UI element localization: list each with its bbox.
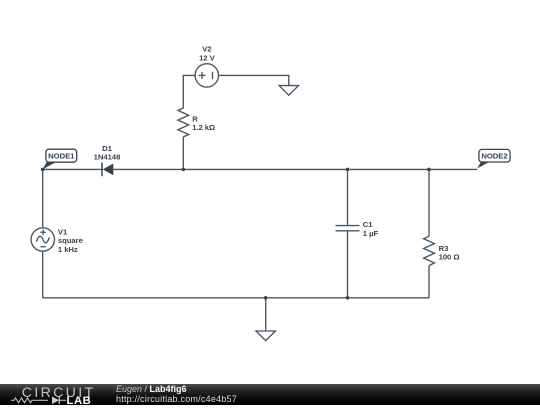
wire: main bus right segment (D1 to NODE2) xyxy=(113,168,477,170)
footer title text xyxy=(116,385,237,404)
wire: R bottom to main bus xyxy=(182,137,184,170)
ground (bottom, main) xyxy=(256,331,275,341)
svg-text:V2: V2 xyxy=(202,45,211,54)
svg-text:LAB: LAB xyxy=(67,395,92,405)
svg-text:D1: D1 xyxy=(102,144,113,153)
svg-text:NODE1: NODE1 xyxy=(48,152,75,161)
wire: V2 left lead to R top xyxy=(183,75,195,108)
wire: main bus left segment (NODE1 to D1) xyxy=(43,168,102,170)
svg-text:12 V: 12 V xyxy=(199,53,216,62)
ground (top, at V2 negative) xyxy=(279,86,298,96)
svg-text:1 kHz: 1 kHz xyxy=(58,245,78,254)
svg-text:R: R xyxy=(192,114,198,123)
svg-text:1N4148: 1N4148 xyxy=(94,153,121,162)
wire: left branch upper (NODE1 down to V1 top) xyxy=(42,169,44,228)
voltage source V1 (square 1 kHz) xyxy=(31,228,54,251)
svg-text:100 Ω: 100 Ω xyxy=(439,253,460,262)
svg-text:1.2 kΩ: 1.2 kΩ xyxy=(192,123,215,132)
wire: bottom bus xyxy=(43,297,429,299)
wire: R3 bottom lead xyxy=(428,266,430,298)
resistor R 1.2 k xyxy=(178,108,189,137)
svg-text:C1: C1 xyxy=(363,220,374,229)
junction dot at R / main bus xyxy=(182,168,186,172)
junction dot at ground / bottom bus xyxy=(264,296,268,300)
junction dot at C1 / bottom bus xyxy=(346,296,350,300)
wire: left branch lower (V1 bottom to bottom bus) xyxy=(42,251,44,298)
svg-text:R3: R3 xyxy=(439,244,449,253)
voltage source V2 (DC 12 V) xyxy=(195,64,218,87)
junction dot at NODE1 xyxy=(41,168,45,172)
node NODE2 flag xyxy=(477,149,510,168)
node NODE1 flag xyxy=(43,149,77,169)
svg-text:V1: V1 xyxy=(58,227,68,236)
diode D1 xyxy=(102,163,113,177)
wire: C1 top lead xyxy=(347,169,349,225)
resistor R3 100 Ohm xyxy=(424,236,435,265)
wire: R3 top lead xyxy=(428,169,430,236)
CircuitLab logo xyxy=(0,384,110,410)
junction dot at R3 / main bus xyxy=(427,168,431,172)
capacitor C1 xyxy=(336,226,360,231)
svg-text:1 µF: 1 µF xyxy=(363,229,379,238)
wire: V2 right lead to top ground xyxy=(218,75,288,85)
svg-text:NODE2: NODE2 xyxy=(481,152,507,161)
wire: C1 bottom lead xyxy=(347,231,349,298)
svg-text:square: square xyxy=(58,236,84,245)
wire: bottom ground stub xyxy=(265,298,267,331)
footer bar xyxy=(0,384,540,405)
junction dot at C1 / main bus xyxy=(346,168,350,172)
